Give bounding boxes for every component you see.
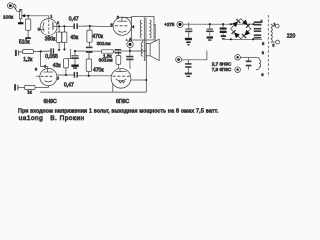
capacitor C8 bypass xyxy=(126,51,133,69)
resistor R4 43k xyxy=(62,26,67,49)
resistor R10 301om xyxy=(116,51,121,69)
wire anode to C1 xyxy=(56,25,73,27)
capacitor C13 xyxy=(185,60,191,73)
node R4 stub xyxy=(63,25,65,27)
wiper wire to grid xyxy=(22,15,49,17)
resistor R11 1k xyxy=(25,85,36,89)
svg-text:4: 4 xyxy=(44,63,47,68)
heater terminal bottom xyxy=(235,67,241,73)
ground C13 xyxy=(185,74,192,77)
capacitor C14 bypass2 xyxy=(15,84,24,90)
svg-text:2: 2 xyxy=(57,20,60,25)
svg-text:8: 8 xyxy=(262,50,265,55)
PSU bottom rail xyxy=(223,38,262,40)
wire to R6 xyxy=(66,49,71,59)
heater terminal top xyxy=(235,55,241,61)
svg-text:4: 4 xyxy=(132,24,135,29)
svg-text:5: 5 xyxy=(57,75,60,80)
svg-text:При входном напряжении 1 вольт: При входном напряжении 1 вольт, выходная… xyxy=(18,108,218,114)
capacitor C3 0.068 xyxy=(51,48,53,53)
bottom loop wire xyxy=(40,91,146,93)
wire hv drop xyxy=(154,24,156,41)
svg-text:1,2к: 1,2к xyxy=(23,57,33,63)
node C10 xyxy=(209,23,211,25)
node wiper a xyxy=(23,15,25,17)
resistor R6 43k xyxy=(63,59,68,75)
capacitor C10 xyxy=(206,24,214,41)
wire cathode bus xyxy=(34,50,51,53)
svg-text:510к: 510к xyxy=(19,40,30,46)
svg-text:6: 6 xyxy=(35,66,38,71)
node R7 top xyxy=(89,25,91,27)
svg-text:0,47: 0,47 xyxy=(64,82,74,88)
capacitor C4 xyxy=(71,51,78,69)
wire VL2 right pin xyxy=(131,79,147,81)
svg-text:0,47: 0,47 xyxy=(69,16,79,22)
capacitor C12 heater xyxy=(246,57,252,69)
node wiper b xyxy=(27,15,29,17)
svg-text:9: 9 xyxy=(261,72,264,77)
wire fb to speaker drop xyxy=(129,50,146,52)
transformer T2 primary xyxy=(271,24,272,43)
svg-text:1: 1 xyxy=(273,21,276,26)
svg-text:301ом: 301ом xyxy=(97,41,111,47)
svg-text:2,7 6Н9С: 2,7 6Н9С xyxy=(212,61,232,66)
transformer T2 HV winding xyxy=(254,22,261,38)
svg-text:6Н9С: 6Н9С xyxy=(44,99,58,105)
svg-text:43к: 43к xyxy=(53,63,62,69)
capacitor C11 electrolytic xyxy=(220,24,227,39)
resistor R3 390k xyxy=(57,26,62,49)
node R6 bottom xyxy=(65,74,67,76)
wire jack to pot xyxy=(13,6,20,12)
resistor R2 510k xyxy=(25,16,31,39)
capacitor C9 xyxy=(185,22,193,45)
node meter bottom xyxy=(129,50,131,52)
label +A xyxy=(126,37,132,42)
node k3 xyxy=(58,49,60,51)
svg-text:100к: 100к xyxy=(3,15,14,21)
wire R11 to loop xyxy=(35,87,48,89)
resistor R9 1.5k xyxy=(101,50,113,53)
potentiometer R1 100k xyxy=(19,9,26,18)
node loop right xyxy=(145,79,147,81)
diode bridge VD1-VD4 xyxy=(230,19,255,41)
output transformer T1 xyxy=(131,17,154,62)
wire C5 to VL2 grid xyxy=(78,75,111,77)
mains tap 3 xyxy=(272,40,280,44)
capacitor C7 inline xyxy=(114,50,130,53)
heater wires xyxy=(240,56,256,58)
svg-text:6П6С: 6П6С xyxy=(116,99,129,105)
svg-text:7,9 6П6С: 7,9 6П6С xyxy=(212,67,232,72)
terminal +275 xyxy=(177,21,183,27)
resistor R5 1.2k xyxy=(23,50,34,54)
wire link T1 to hv drop xyxy=(154,23,156,25)
node C4 stub xyxy=(74,50,76,52)
tube half VL1b upper xyxy=(113,17,131,35)
svg-text:5: 5 xyxy=(262,41,265,46)
node R3 stub xyxy=(58,25,60,27)
svg-text:1: 1 xyxy=(50,14,53,19)
svg-text:1к: 1к xyxy=(27,90,33,95)
svg-text:390к: 390к xyxy=(45,36,56,42)
heater feed wire xyxy=(182,51,207,60)
heater winding 8-9 xyxy=(256,57,261,69)
node k4 xyxy=(63,48,65,50)
node k1 xyxy=(40,50,42,52)
node C11 xyxy=(222,23,224,25)
capacitor C2 bypass xyxy=(16,50,23,56)
resistor R8 470k xyxy=(86,59,91,76)
mains tap 1 xyxy=(272,24,279,28)
node R8 bottom xyxy=(88,75,90,77)
svg-text:3: 3 xyxy=(272,43,275,48)
wire VL2 bottom pin xyxy=(112,84,114,92)
PSU top rail xyxy=(183,23,262,25)
tube VL1 6N9S triode2 xyxy=(36,68,57,88)
transformer T2 core xyxy=(267,15,269,77)
feedback wire left xyxy=(75,50,102,52)
resistor R7 470k xyxy=(87,26,92,47)
tube VL1 6N9S triode1 xyxy=(40,16,57,37)
svg-text:470к: 470к xyxy=(93,67,104,73)
wire VL1b anode xyxy=(57,74,74,76)
input jack X1 xyxy=(7,3,16,10)
speaker return drop xyxy=(145,56,147,92)
capacitor C6 xyxy=(86,47,93,59)
wire VL1b pin4 feed xyxy=(41,51,48,67)
svg-text:301ом: 301ом xyxy=(99,57,113,63)
speaker BA1 xyxy=(146,39,159,60)
svg-text:470к: 470к xyxy=(92,34,103,40)
capacitor C5 0.47 xyxy=(74,72,77,78)
tube VL2 6P6S xyxy=(111,68,131,88)
capacitor C1 0.47 xyxy=(74,23,77,29)
wire C1 to VL1b grid xyxy=(78,25,113,28)
svg-text:+275: +275 xyxy=(164,22,175,27)
meter test point A xyxy=(127,40,133,51)
heater feed terminal xyxy=(176,57,182,63)
svg-text:43к: 43к xyxy=(70,35,79,41)
wire T2 anode to T1 xyxy=(122,17,132,19)
svg-text:3: 3 xyxy=(117,14,120,19)
svg-text:4: 4 xyxy=(260,18,263,23)
svg-text:220: 220 xyxy=(287,34,296,40)
svg-text:0,068: 0,068 xyxy=(45,54,58,60)
svg-text:ua1ong В. Прокин: ua1ong В. Прокин xyxy=(19,115,85,122)
ground under pot xyxy=(18,19,24,25)
